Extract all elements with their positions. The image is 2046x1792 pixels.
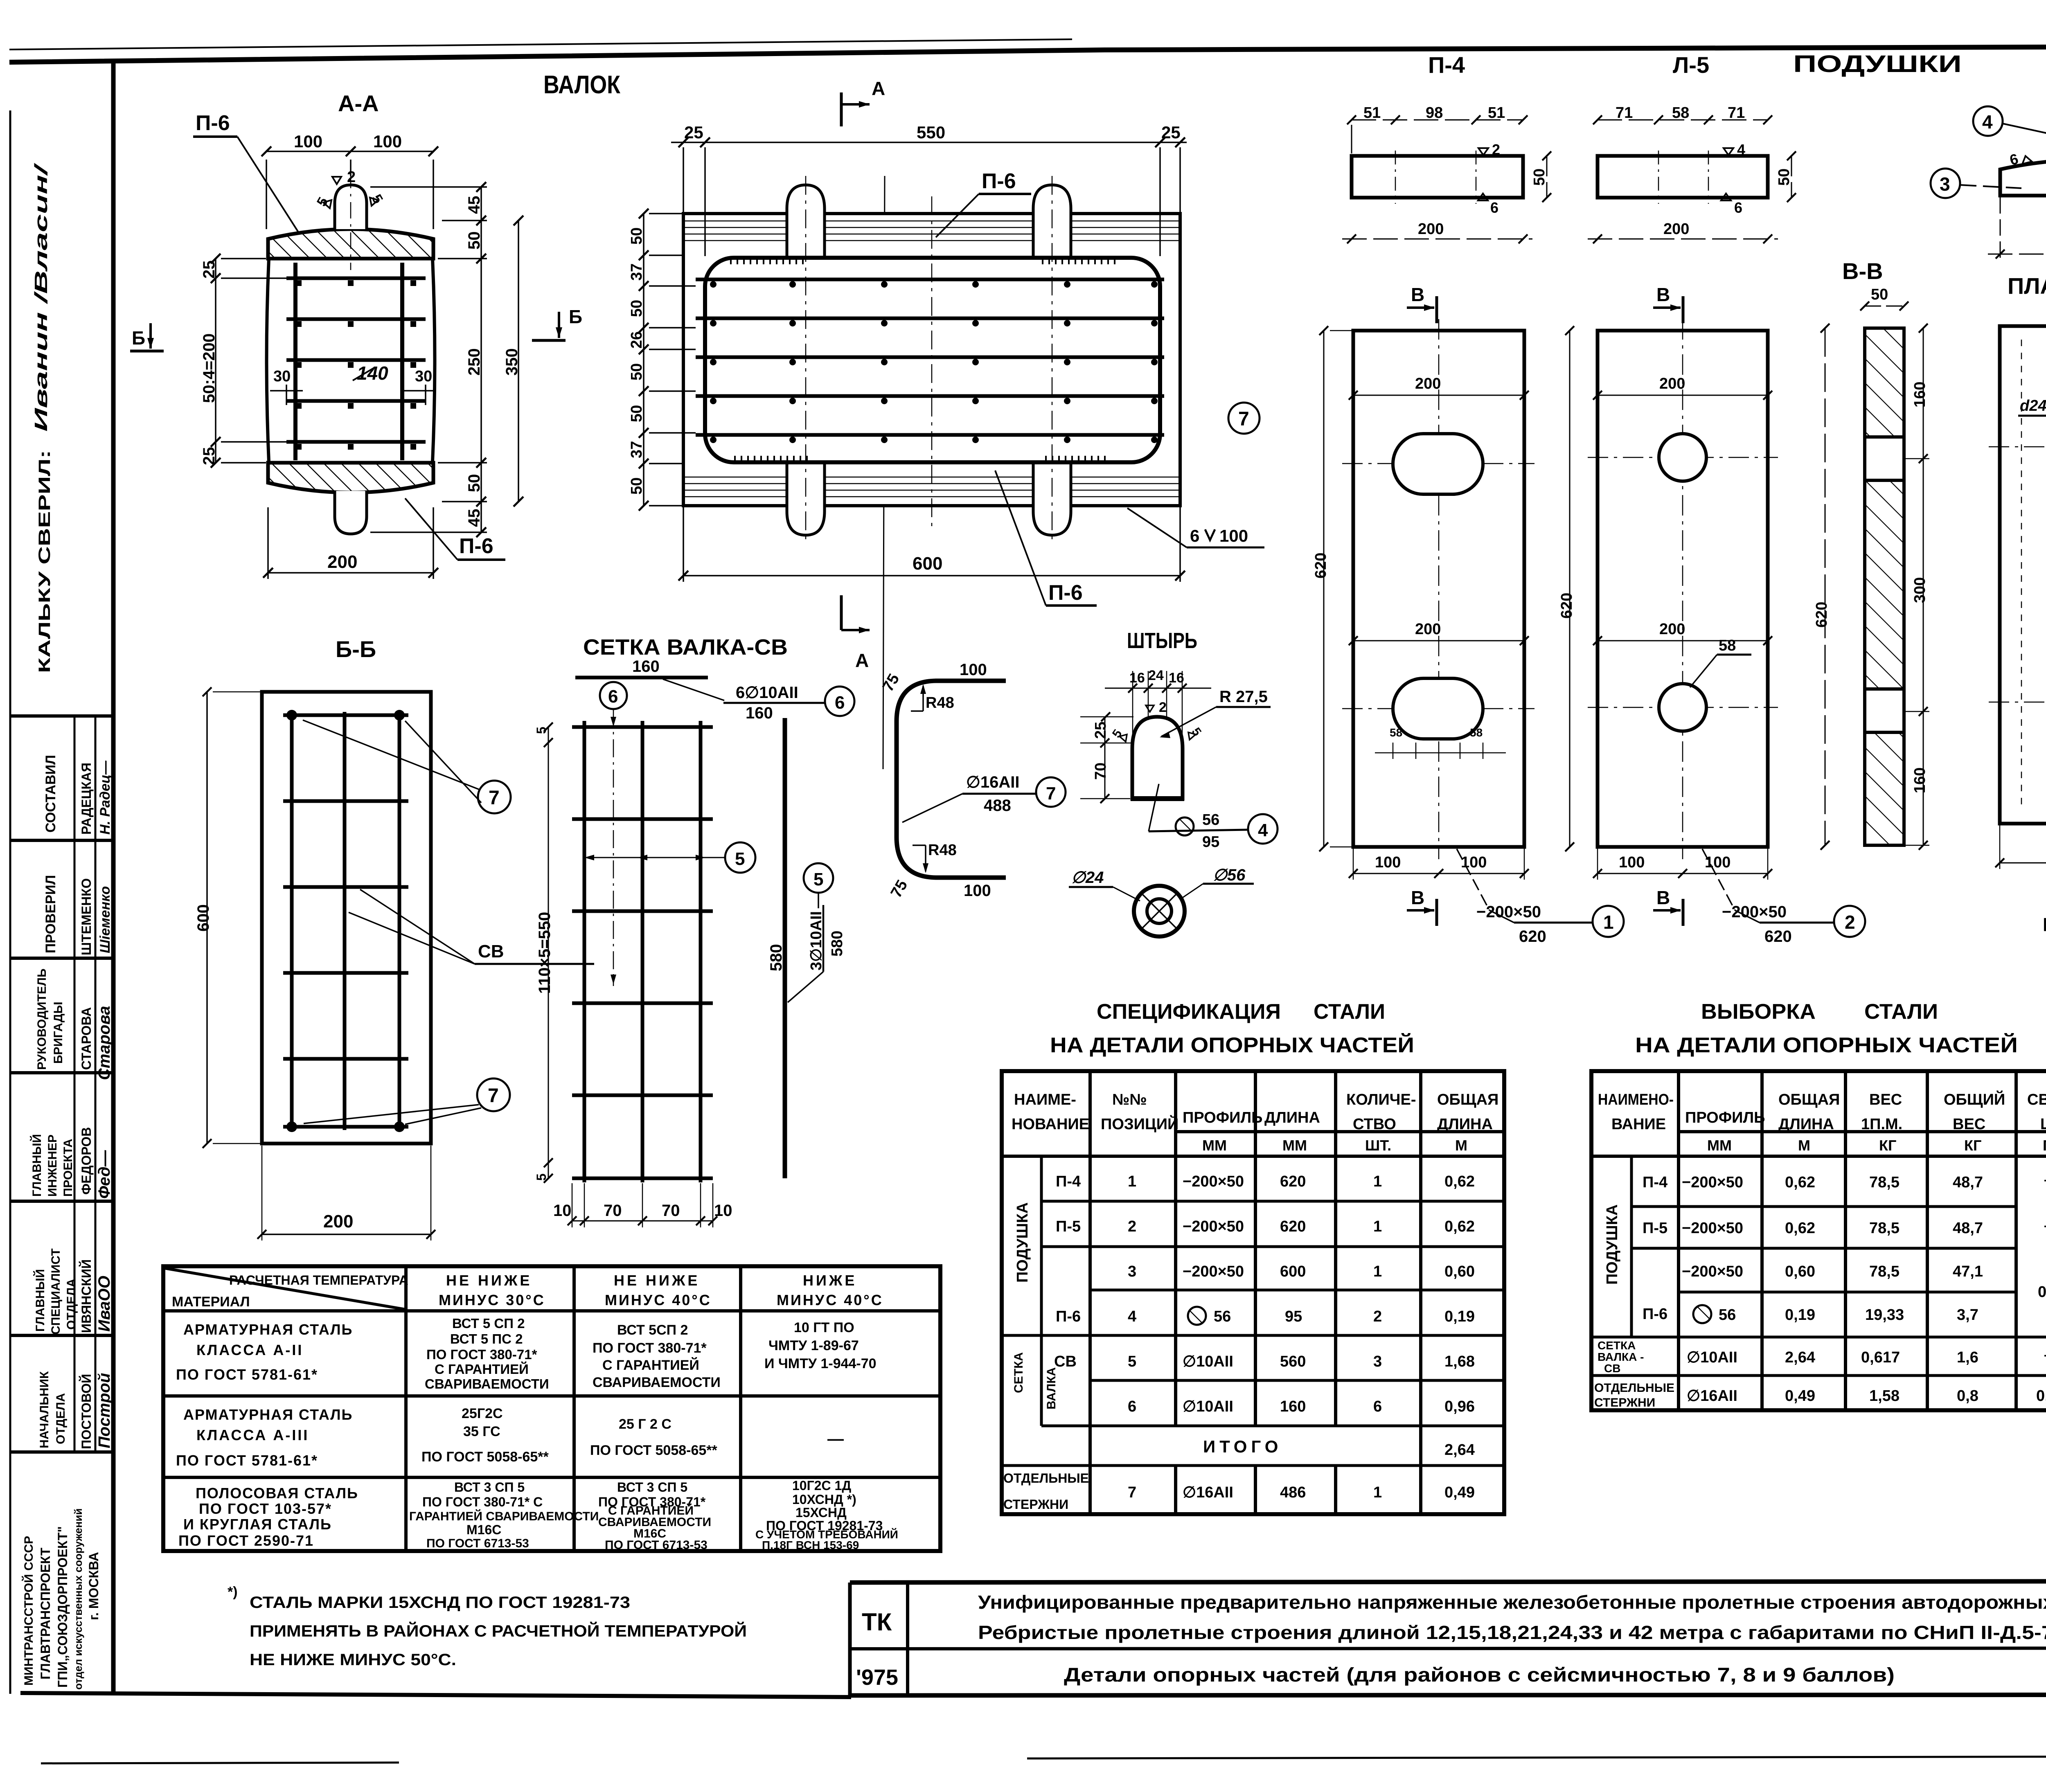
- svg-text:50: 50: [628, 477, 645, 495]
- svg-text:ВАЛОК: ВАЛОК: [543, 71, 620, 99]
- svg-text:ОТДЕЛА: ОТДЕЛА: [54, 1393, 68, 1444]
- svg-text:ММ: ММ: [1282, 1137, 1307, 1154]
- svg-text:0,617: 0,617: [1861, 1349, 1900, 1366]
- svg-text:0,49: 0,49: [1785, 1387, 1815, 1405]
- balloon 7 bottom with leaders: [477, 1078, 510, 1111]
- svg-text:620: 620: [1764, 928, 1792, 946]
- svg-text:ПОЛОСОВАЯ СТАЛЬ: ПОЛОСОВАЯ СТАЛЬ: [196, 1485, 358, 1502]
- mesh vertical bars: [292, 712, 399, 1130]
- svg-text:—: —: [2044, 1217, 2046, 1234]
- svg-text:ШТЕМЕНКО: ШТЕМЕНКО: [79, 878, 94, 955]
- svg-text:600: 600: [194, 904, 212, 932]
- svg-text:0,62: 0,62: [1785, 1174, 1815, 1191]
- svg-text:П.М.: П.М.: [2043, 1137, 2046, 1154]
- svg-text:50: 50: [465, 232, 483, 250]
- obround holes: [1393, 434, 1483, 494]
- left dims 25 70: [1104, 717, 1106, 799]
- svg-text:ПО ГОСТ 103-57*: ПО ГОСТ 103-57*: [199, 1500, 332, 1517]
- right dim 50: [1546, 156, 1548, 198]
- svg-text:В: В: [1411, 887, 1424, 908]
- svg-text:16: 16: [1129, 670, 1145, 686]
- svg-text:24: 24: [1148, 668, 1164, 683]
- svg-text:58: 58: [1719, 637, 1736, 654]
- svg-text:10 ГТ ПО: 10 ГТ ПО: [794, 1320, 854, 1335]
- svg-text:Унифицированные предварительн: Унифицированные предварительно напряженн…: [978, 1592, 2046, 1613]
- svg-text:1: 1: [1603, 912, 1614, 933]
- centerlines: [1438, 319, 1440, 859]
- svg-text:отдел искусственных сооружений: отдел искусственных сооружений: [72, 1508, 84, 1690]
- svg-text:НЕ НИЖЕ: НЕ НИЖЕ: [614, 1272, 700, 1289]
- section mark Б left: [130, 323, 164, 351]
- svg-text:∅24: ∅24: [1071, 869, 1104, 887]
- svg-text:∅10АII: ∅10АII: [1687, 1349, 1737, 1366]
- svg-text:25: 25: [1161, 123, 1181, 142]
- dome + body: [1132, 717, 1183, 799]
- svg-text:ШВЫ: ШВЫ: [2040, 1116, 2046, 1133]
- svg-text:1: 1: [1373, 1173, 1382, 1190]
- section mark А top: [840, 92, 843, 126]
- bottom dim 200: [1342, 239, 1532, 240]
- svg-text:3: 3: [1373, 1353, 1382, 1370]
- svg-text:50: 50: [628, 300, 645, 317]
- svg-text:d24: d24: [2020, 397, 2046, 414]
- bottom dim 200: [262, 1234, 431, 1235]
- svg-text:486: 486: [1280, 1484, 1306, 1501]
- frame top border: [9, 46, 2046, 62]
- svg-text:П-4: П-4: [1056, 1173, 1081, 1190]
- svg-text:СВАРИВАЕМОСТИ: СВАРИВАЕМОСТИ: [593, 1375, 721, 1390]
- sidebar table: [10, 716, 113, 1452]
- stirrup horizontal bars: [286, 278, 426, 442]
- svg-text:НА ДЕТАЛИ ОПОРНЫХ ЧАСТЕЙ: НА ДЕТАЛИ ОПОРНЫХ ЧАСТЕЙ: [1050, 1033, 1414, 1057]
- svg-text:А-А: А-А: [338, 90, 379, 116]
- bottom dim 200: [1988, 254, 2046, 255]
- svg-text:0,19: 0,19: [1785, 1306, 1815, 1324]
- svg-text:∅10АII: ∅10АII: [1183, 1353, 1233, 1370]
- svg-text:300: 300: [1911, 577, 1929, 603]
- svg-text:ИТОГО: ИТОГО: [1203, 1437, 1282, 1456]
- svg-text:СТАРОВА: СТАРОВА: [79, 1007, 94, 1070]
- svg-text:ФЕДОРОВ: ФЕДОРОВ: [79, 1127, 94, 1195]
- svg-text:ВАНИЕ: ВАНИЕ: [1611, 1116, 1666, 1133]
- svg-text:100: 100: [1461, 854, 1487, 871]
- bottom scan lines: [1027, 1756, 2046, 1758]
- svg-text:В: В: [1656, 284, 1670, 305]
- svg-text:5: 5: [534, 727, 549, 734]
- svg-text:5: 5: [534, 1173, 549, 1181]
- left dims 25 / 50x4=200 / 25: [216, 259, 286, 463]
- svg-text:НИЖЕ: НИЖЕ: [803, 1272, 857, 1289]
- svg-text:ШТЫРЬ: ШТЫРЬ: [1127, 628, 1197, 653]
- svg-text:75: 75: [888, 877, 911, 901]
- top cushion П-6 (hatched): [268, 229, 433, 259]
- svg-text:37: 37: [628, 441, 645, 458]
- svg-text:37: 37: [628, 263, 645, 281]
- label П-6 top-left: [193, 111, 307, 245]
- svg-text:Б: Б: [569, 306, 582, 327]
- svg-text:В: В: [1411, 284, 1424, 305]
- svg-text:6: 6: [608, 687, 618, 707]
- svg-text:200: 200: [323, 1211, 353, 1231]
- svg-text:АРМАТУРНАЯ СТАЛЬ: АРМАТУРНАЯ СТАЛЬ: [183, 1406, 353, 1423]
- svg-text:*): *): [228, 1584, 238, 1600]
- svg-text:ГЛАВНЫЙ: ГЛАВНЫЙ: [30, 1134, 44, 1197]
- svg-text:620: 620: [1813, 602, 1830, 628]
- svg-text:70: 70: [604, 1202, 622, 1220]
- svg-text:50: 50: [465, 474, 483, 493]
- svg-text:ПО ГОСТ 380-71*: ПО ГОСТ 380-71*: [593, 1340, 707, 1356]
- svg-text:0,62: 0,62: [1444, 1173, 1475, 1190]
- svg-text:Г: Г: [2043, 914, 2046, 935]
- dim 200 mid: [1353, 640, 1524, 642]
- svg-text:ПОДУШКА: ПОДУШКА: [1014, 1202, 1031, 1283]
- svg-text:110×5=550: 110×5=550: [536, 912, 554, 994]
- svg-text:СЕТКА: СЕТКА: [1598, 1339, 1636, 1352]
- svg-text:СВ: СВ: [1604, 1362, 1620, 1375]
- svg-text:−200×50: −200×50: [1682, 1263, 1743, 1280]
- svg-text:П-5: П-5: [1643, 1220, 1667, 1237]
- svg-text:П-4: П-4: [1643, 1174, 1667, 1191]
- balloon 6 left: [600, 682, 627, 709]
- svg-text:КЛАССА А-II: КЛАССА А-II: [196, 1342, 303, 1358]
- svg-text:Иванин /Власин/: Иванин /Власин/: [31, 162, 51, 432]
- svg-text:200: 200: [1659, 375, 1685, 392]
- svg-text:ЧМТУ 1-89-67: ЧМТУ 1-89-67: [768, 1338, 859, 1353]
- svg-text:58: 58: [1390, 726, 1402, 739]
- svg-text:ПО ГОСТ 380-71*: ПО ГОСТ 380-71*: [426, 1347, 537, 1362]
- top bar pos 6: [575, 676, 708, 680]
- svg-text:51: 51: [1363, 104, 1381, 122]
- svg-text:R48: R48: [928, 842, 957, 859]
- svg-text:6: 6: [1490, 199, 1498, 216]
- svg-text:78,5: 78,5: [1869, 1174, 1900, 1191]
- svg-text:1П.М.: 1П.М.: [1861, 1116, 1902, 1133]
- svg-text:7: 7: [488, 1085, 499, 1107]
- svg-text:СПЕЦИАЛИСТ: СПЕЦИАЛИСТ: [49, 1248, 63, 1335]
- B mark top: [1407, 306, 1434, 309]
- svg-text:−200×50: −200×50: [1183, 1263, 1244, 1280]
- svg-text:50: 50: [1776, 169, 1793, 186]
- rebar dots: [710, 281, 1158, 443]
- svg-text:45: 45: [465, 196, 483, 214]
- svg-text:0,19: 0,19: [1444, 1308, 1475, 1325]
- left dim 620: [1569, 331, 1571, 847]
- svg-text:−200×50: −200×50: [1183, 1218, 1244, 1235]
- svg-text:7: 7: [489, 787, 500, 809]
- svg-text:Ребристые пролетные строения: Ребристые пролетные строения длиной 12,1…: [978, 1622, 2046, 1643]
- svg-text:160: 160: [1911, 768, 1929, 793]
- svg-text:М: М: [1798, 1137, 1810, 1154]
- svg-text:ПО ГОСТ 5058-65**: ПО ГОСТ 5058-65**: [421, 1449, 549, 1465]
- svg-text:ВСТ 5 ПС 2: ВСТ 5 ПС 2: [450, 1331, 523, 1346]
- svg-text:0,96: 0,96: [1444, 1398, 1475, 1415]
- svg-text:25 Г 2 С: 25 Г 2 С: [619, 1416, 671, 1432]
- svg-text:ОБЩАЯ: ОБЩАЯ: [1437, 1091, 1498, 1108]
- svg-text:ВЕС: ВЕС: [1953, 1116, 1985, 1133]
- svg-text:0,8: 0,8: [1957, 1387, 1978, 1405]
- svg-text:И КРУГЛАЯ СТАЛЬ: И КРУГЛАЯ СТАЛЬ: [183, 1516, 332, 1533]
- svg-text:НАИМЕ-: НАИМЕ-: [1014, 1091, 1076, 1108]
- B mark bottom: [1407, 909, 1434, 912]
- svg-text:45: 45: [465, 509, 483, 527]
- svg-text:ПОДУШКА: ПОДУШКА: [1604, 1204, 1621, 1285]
- svg-text:—: —: [2044, 1171, 2046, 1189]
- balloon 7: [1228, 403, 1260, 434]
- svg-text:МИНУС 40°С: МИНУС 40°С: [777, 1292, 883, 1308]
- svg-text:П-6: П-6: [1056, 1308, 1081, 1325]
- svg-text:−200×50: −200×50: [1682, 1174, 1743, 1191]
- svg-text:ПО ГОСТ 6713-53: ПО ГОСТ 6713-53: [605, 1538, 708, 1552]
- top dims 16 24 16: [1105, 688, 1211, 689]
- svg-text:СЕТКА: СЕТКА: [1012, 1352, 1025, 1393]
- svg-text:∅16АII: ∅16АII: [1183, 1484, 1233, 1501]
- bottom pins: [787, 462, 825, 535]
- svg-text:ПО ГОСТ 5781-61*: ПО ГОСТ 5781-61*: [176, 1452, 318, 1469]
- svg-text:0,60: 0,60: [1785, 1263, 1815, 1280]
- svg-text:ВАЛКА: ВАЛКА: [1045, 1367, 1058, 1409]
- svg-text:19,33: 19,33: [1865, 1306, 1904, 1324]
- svg-text:200: 200: [1659, 621, 1685, 638]
- svg-text:ГЛАВНЫЙ: ГЛАВНЫЙ: [33, 1269, 47, 1332]
- svg-text:3∅10АII: 3∅10АII: [808, 911, 825, 970]
- svg-text:СТАЛИ: СТАЛИ: [1314, 1000, 1385, 1024]
- bottom pin: [335, 491, 367, 534]
- svg-text:ВСТ 5 СП 2: ВСТ 5 СП 2: [452, 1316, 525, 1331]
- svg-text:10ХСНД *): 10ХСНД *): [792, 1492, 856, 1507]
- svg-text:ВСТ 3 СП 5: ВСТ 3 СП 5: [454, 1480, 525, 1495]
- svg-text:4: 4: [1982, 111, 1993, 133]
- left dim 110x5=550: [548, 727, 549, 1178]
- svg-text:А: А: [872, 78, 885, 99]
- svg-text:250: 250: [465, 348, 483, 376]
- slab outline: [683, 214, 1180, 506]
- svg-text:5: 5: [1128, 1353, 1136, 1370]
- svg-text:Построй: Построй: [95, 1373, 113, 1448]
- svg-text:48,7: 48,7: [1953, 1220, 1983, 1237]
- svg-text:R48: R48: [926, 694, 954, 711]
- svg-text:56: 56: [1202, 811, 1219, 828]
- svg-text:КГ: КГ: [1964, 1137, 1981, 1154]
- svg-text:51: 51: [1488, 104, 1505, 122]
- bottom dims 100 100: [1598, 873, 1768, 874]
- section mark А bottom: [840, 595, 843, 630]
- svg-text:580: 580: [829, 931, 846, 957]
- svg-text:ГПИ„СОЮЗДОРПРОЕКТ": ГПИ„СОЮЗДОРПРОЕКТ": [55, 1526, 70, 1688]
- svg-text:ПОЗИЦИЙ: ПОЗИЦИЙ: [1101, 1114, 1178, 1133]
- svg-text:ДЛИНА: ДЛИНА: [1778, 1116, 1834, 1133]
- svg-text:100: 100: [1375, 854, 1401, 871]
- svg-text:∅16АII: ∅16АII: [966, 773, 1019, 791]
- leader to label 56/95 balloon 4: [1149, 784, 1159, 831]
- svg-text:С ГАРАНТИЕЙ: С ГАРАНТИЕЙ: [602, 1357, 699, 1373]
- svg-text:100: 100: [1619, 854, 1645, 871]
- svg-text:100: 100: [373, 132, 402, 151]
- svg-text:НЕ НИЖЕ МИНУС 50°С.: НЕ НИЖЕ МИНУС 50°С.: [250, 1651, 456, 1669]
- svg-text:НА ДЕТАЛИ ОПОРНЫХ ЧАСТЕЙ: НА ДЕТАЛИ ОПОРНЫХ ЧАСТЕЙ: [1635, 1033, 2018, 1057]
- svg-text:350: 350: [503, 348, 521, 376]
- svg-text:Н. Радец—: Н. Радец—: [97, 760, 113, 835]
- svg-text:НЕ НИЖЕ: НЕ НИЖЕ: [446, 1272, 532, 1289]
- svg-text:—: —: [827, 1430, 844, 1448]
- weld tick rows: [731, 259, 1115, 462]
- svg-text:7: 7: [1046, 783, 1056, 804]
- svg-text:3: 3: [1128, 1263, 1136, 1280]
- svg-text:М: М: [1455, 1137, 1467, 1154]
- frame bottom border: [20, 1693, 851, 1697]
- svg-text:В-В: В-В: [1842, 258, 1883, 284]
- svg-text:П-6: П-6: [459, 534, 493, 558]
- bottom dim 200: [268, 507, 433, 579]
- top pins with dashed embed: [787, 185, 825, 258]
- dim 200 mid: [1598, 640, 1768, 642]
- svg-text:200: 200: [1663, 221, 1689, 238]
- svg-text:ОТДЕЛЬНЫЕ: ОТДЕЛЬНЫЕ: [1003, 1471, 1089, 1486]
- svg-text:5: 5: [735, 849, 745, 869]
- svg-text:100: 100: [960, 661, 987, 679]
- svg-text:160: 160: [746, 704, 773, 722]
- svg-text:СВ: СВ: [1054, 1353, 1077, 1370]
- svg-text:ОБЩИЙ: ОБЩИЙ: [1944, 1090, 2005, 1108]
- svg-text:−200×50: −200×50: [1682, 1220, 1743, 1237]
- bottom dim 200: [2000, 862, 2046, 864]
- stirrup cage vertical bars: [293, 263, 297, 460]
- svg-text:50: 50: [628, 363, 645, 380]
- svg-text:РАДЕЦКАЯ: РАДЕЦКАЯ: [79, 763, 94, 835]
- svg-text:ВЫБОРКА: ВЫБОРКА: [1701, 1000, 1816, 1024]
- balloon 3: [1931, 169, 1960, 198]
- svg-text:30: 30: [273, 368, 291, 385]
- svg-text:58: 58: [1672, 104, 1689, 122]
- svg-text:58: 58: [1470, 726, 1483, 739]
- svg-text:1,58: 1,58: [1869, 1387, 1900, 1405]
- svg-text:А: А: [855, 650, 869, 671]
- svg-text:2: 2: [1373, 1308, 1382, 1325]
- svg-text:5: 5: [813, 869, 823, 889]
- svg-text:16: 16: [1169, 670, 1184, 686]
- surface marks: [1478, 148, 1488, 155]
- svg-text:ПРИМЕНЯТЬ В РАЙОНАХ С РАСЧ: ПРИМЕНЯТЬ В РАЙОНАХ С РАСЧЕТНОЙ ТЕМПЕРАТ…: [250, 1621, 747, 1640]
- svg-text:П-5: П-5: [1056, 1218, 1081, 1235]
- svg-text:КГ: КГ: [1879, 1137, 1896, 1154]
- svg-text:∅10АII: ∅10АII: [1183, 1398, 1233, 1415]
- svg-text:Шіеменко: Шіеменко: [97, 886, 113, 953]
- mesh horizontal bars: [283, 715, 408, 1127]
- svg-text:2,64: 2,64: [1444, 1441, 1475, 1459]
- svg-text:580: 580: [767, 944, 785, 971]
- bottom section: circles with cross: [1134, 886, 1185, 937]
- svg-text:КОЛИЧЕ-: КОЛИЧЕ-: [1346, 1091, 1416, 1108]
- svg-text:ММ: ММ: [1707, 1137, 1732, 1154]
- svg-text:СТАЛИ: СТАЛИ: [1864, 1000, 1938, 1024]
- svg-text:620: 620: [1280, 1218, 1306, 1235]
- svg-text:560: 560: [1280, 1353, 1306, 1370]
- svg-text:В: В: [1656, 887, 1670, 908]
- svg-text:СОСТАВИЛ: СОСТАВИЛ: [43, 755, 59, 833]
- svg-text:3,7: 3,7: [1957, 1306, 1978, 1324]
- svg-text:П-6: П-6: [1643, 1306, 1667, 1323]
- svg-text:6: 6: [1373, 1398, 1382, 1415]
- bottom dims 100 100: [1353, 873, 1524, 874]
- svg-text:АРМАТУРНАЯ СТАЛЬ: АРМАТУРНАЯ СТАЛЬ: [183, 1321, 353, 1338]
- svg-text:200: 200: [1415, 375, 1441, 392]
- title block: [850, 1581, 2046, 1695]
- svg-text:140: 140: [357, 362, 388, 384]
- svg-text:Фед—: Фед—: [95, 1150, 113, 1199]
- svg-text:15ХСНД: 15ХСНД: [795, 1505, 847, 1520]
- svg-text:50: 50: [1871, 286, 1888, 303]
- svg-text:ИваОО: ИваОО: [95, 1276, 113, 1332]
- footnote: [228, 1584, 747, 1669]
- top dims 51 98 51: [1352, 120, 1523, 153]
- left dim 620: [1323, 331, 1325, 847]
- mesh bars: [584, 721, 701, 1182]
- svg-text:ТК: ТК: [862, 1608, 892, 1636]
- svg-text:ОТДЕЛА: ОТДЕЛА: [65, 1279, 78, 1330]
- svg-text:620: 620: [1558, 593, 1575, 619]
- svg-text:95: 95: [1202, 833, 1219, 851]
- svg-text:7: 7: [1238, 408, 1249, 430]
- svg-text:100: 100: [1705, 854, 1731, 871]
- svg-text:ВЕС: ВЕС: [1869, 1091, 1902, 1108]
- svg-text:ПРОФИЛЬ: ПРОФИЛЬ: [1183, 1109, 1262, 1126]
- svg-text:0,40: 0,40: [2038, 1283, 2046, 1301]
- balloon 5 with leader: [589, 857, 725, 858]
- svg-text:СВАРИВАЕМОСТИ: СВАРИВАЕМОСТИ: [425, 1376, 549, 1391]
- svg-text:СВАРНЫЕ: СВАРНЫЕ: [2027, 1091, 2046, 1108]
- svg-text:№№: №№: [1112, 1091, 1147, 1108]
- svg-text:КЛАССА А-III: КЛАССА А-III: [196, 1427, 309, 1443]
- top dim 25 550 25: [671, 142, 1187, 256]
- bearing plate rounded rect: [705, 258, 1160, 462]
- svg-text:25: 25: [684, 123, 703, 142]
- svg-text:71: 71: [1616, 104, 1633, 122]
- svg-text:ПРОФИЛЬ: ПРОФИЛЬ: [1685, 1109, 1765, 1126]
- svg-text:160: 160: [632, 657, 660, 675]
- svg-text:ОБЩАЯ: ОБЩАЯ: [1778, 1091, 1840, 1108]
- svg-text:ИВЯНСКИЙ: ИВЯНСКИЙ: [79, 1259, 94, 1333]
- svg-text:ПЛАН: ПЛАН: [2008, 273, 2046, 299]
- svg-text:200: 200: [1415, 621, 1441, 638]
- svg-text:488: 488: [984, 797, 1011, 815]
- svg-text:1,6: 1,6: [1957, 1349, 1978, 1366]
- top dim 50: [1865, 306, 1904, 307]
- svg-text:П-6: П-6: [982, 169, 1016, 193]
- svg-text:ПО ГОСТ 2590-71: ПО ГОСТ 2590-71: [178, 1532, 314, 1549]
- svg-text:620: 620: [1280, 1173, 1306, 1190]
- svg-text:600: 600: [1280, 1263, 1306, 1280]
- svg-text:30: 30: [415, 368, 432, 385]
- svg-text:2: 2: [1128, 1218, 1136, 1235]
- svg-text:1: 1: [1373, 1484, 1382, 1501]
- centerlines: [806, 176, 1052, 544]
- svg-text:1: 1: [1373, 1218, 1382, 1235]
- svg-text:600: 600: [913, 554, 942, 574]
- svg-text:СТВО: СТВО: [1353, 1116, 1396, 1133]
- svg-text:25: 25: [200, 261, 218, 279]
- svg-text:НОВАНИЕ: НОВАНИЕ: [1012, 1116, 1089, 1133]
- dim 100/100 top: [266, 151, 433, 229]
- svg-text:3: 3: [1940, 173, 1950, 195]
- slab laminate lines top: [683, 221, 1180, 241]
- svg-text:ПОСТОВОЙ: ПОСТОВОЙ: [79, 1374, 94, 1449]
- svg-text:ГЛАВТРАНСПРОЕКТ: ГЛАВТРАНСПРОЕКТ: [38, 1547, 53, 1679]
- svg-text:2: 2: [1492, 141, 1500, 158]
- svg-text:СПЕЦИФИКАЦИЯ: СПЕЦИФИКАЦИЯ: [1097, 1000, 1281, 1024]
- svg-text:47,1: 47,1: [1953, 1263, 1983, 1280]
- svg-text:100: 100: [1219, 526, 1248, 545]
- left dim column 50 37 50 26 50 50 37 50: [643, 214, 644, 506]
- svg-text:10: 10: [714, 1202, 732, 1220]
